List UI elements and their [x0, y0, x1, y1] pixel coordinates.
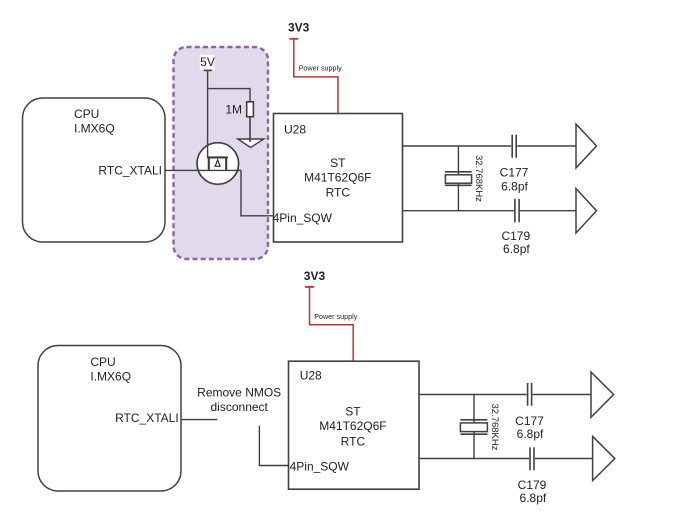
svg-text:1M: 1M	[225, 103, 242, 117]
svg-text:U28: U28	[300, 369, 322, 383]
svg-text:4Pin_SQW: 4Pin_SQW	[290, 460, 350, 474]
svg-text:I.MX6Q: I.MX6Q	[74, 122, 115, 136]
buffer triangle 3 (bottom upper)	[591, 372, 614, 417]
transistor Q1 (NMOS)	[197, 143, 241, 185]
svg-text:C179: C179	[501, 229, 530, 243]
buffer triangle 4 (bottom lower)	[593, 436, 615, 480]
svg-text:Power supply: Power supply	[314, 312, 358, 321]
svg-text:RTC_XTALI: RTC_XTALI	[115, 411, 179, 425]
wire branch to resistor	[208, 89, 250, 102]
svg-text:C177: C177	[500, 166, 529, 180]
ground	[238, 139, 264, 148]
svg-text:I.MX6Q: I.MX6Q	[90, 370, 131, 384]
svg-text:Power supply: Power supply	[299, 63, 343, 72]
wire gate (5V down to NMOS gate)	[207, 70, 209, 157]
svg-text:6.8pf: 6.8pf	[517, 427, 544, 441]
svg-text:RTC_XTALI: RTC_XTALI	[98, 164, 162, 178]
crystal Y2 32.768KHz (bottom)	[460, 403, 500, 450]
wire XTAL2 (bottom right, lower)	[419, 458, 593, 460]
svg-text:ST: ST	[345, 405, 361, 419]
svg-text:disconnect: disconnect	[211, 400, 269, 414]
svg-text:Remove NMOS: Remove NMOS	[197, 385, 281, 399]
3V3 power symbol (bottom)	[304, 269, 326, 287]
svg-text:U28: U28	[284, 122, 306, 136]
wire XTAL2 (top right, lower)	[403, 210, 577, 212]
svg-text:5V: 5V	[200, 55, 215, 69]
svg-text:C177: C177	[515, 414, 544, 428]
power supply wire (red, bottom)	[310, 287, 354, 361]
capacitor C177 (top)	[500, 135, 529, 194]
svg-text:3V3: 3V3	[304, 269, 326, 283]
svg-text:4Pin_SQW: 4Pin_SQW	[273, 211, 333, 225]
svg-text:6.8pf: 6.8pf	[520, 491, 547, 505]
CPU block (top)	[23, 98, 166, 242]
wire XTAL1 (top right, upper)	[403, 145, 577, 147]
svg-text:ST: ST	[330, 156, 346, 170]
wire XTAL1 (bottom right, upper)	[419, 394, 591, 396]
5V power symbol	[200, 55, 215, 71]
crystal Y1 32.768KHz (top)	[445, 155, 484, 202]
svg-text:M41T62Q6F: M41T62Q6F	[319, 419, 386, 433]
svg-text:RTC: RTC	[326, 186, 351, 200]
svg-text:32.768KHz: 32.768KHz	[489, 403, 500, 450]
svg-text:32.768KHz: 32.768KHz	[473, 155, 484, 202]
wire RTC_XTALI (top)	[165, 169, 241, 171]
wire to 4Pin_SQW (bottom)	[259, 426, 288, 466]
svg-text:6.8pf: 6.8pf	[501, 180, 528, 194]
NMOS highlight region (purple dashed box)	[174, 47, 269, 259]
IC U28 (bottom)	[289, 361, 420, 489]
IC U28 (top)	[273, 114, 403, 243]
svg-text:CPU: CPU	[74, 107, 99, 121]
wire RTC_XTALI stub (bottom, disconnected)	[181, 419, 217, 421]
wire crystal vertical (top)	[457, 146, 459, 211]
capacitor C179 (top)	[501, 199, 530, 256]
CPU block (bottom)	[38, 346, 181, 492]
svg-text:6.8pf: 6.8pf	[503, 242, 530, 256]
3V3 power symbol (top)	[288, 21, 310, 39]
svg-text:M41T62Q6F: M41T62Q6F	[304, 170, 371, 184]
wire crystal vertical (bottom)	[473, 395, 475, 459]
capacitor C177 (bottom)	[515, 383, 544, 441]
svg-text:RTC: RTC	[341, 435, 366, 449]
resistor 1M	[225, 102, 253, 117]
svg-text:CPU: CPU	[90, 355, 115, 369]
capacitor C179 (bottom)	[518, 447, 547, 505]
wire resistor to ground	[249, 117, 251, 142]
power supply wire (red, top)	[294, 39, 338, 114]
svg-text:3V3: 3V3	[288, 21, 310, 35]
wire drain to 4Pin_SQW (top)	[241, 170, 274, 215]
buffer triangle 1 (top upper)	[576, 124, 597, 168]
label Remove NMOS disconnect	[197, 385, 281, 414]
buffer triangle 2 (top lower)	[576, 189, 597, 234]
